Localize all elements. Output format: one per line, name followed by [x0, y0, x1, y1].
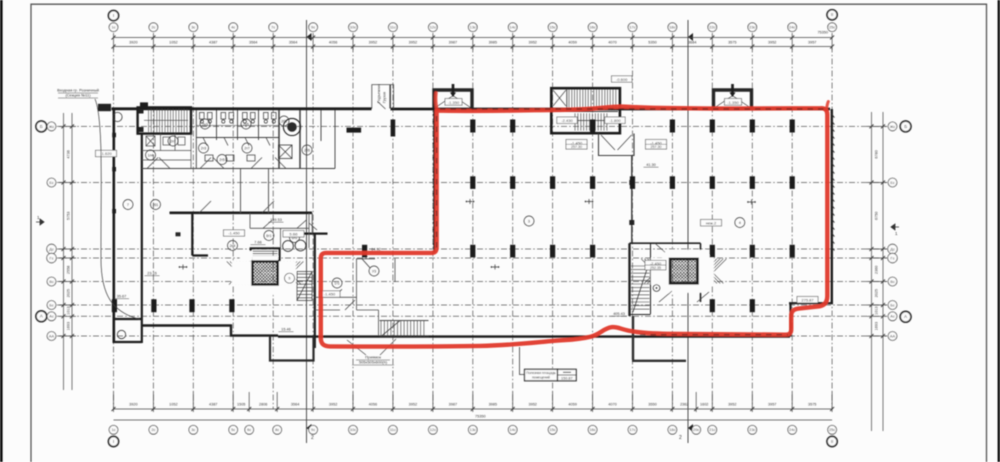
svg-text:1693: 1693: [875, 322, 879, 330]
svg-text:Подъемник: Подъемник: [377, 84, 381, 103]
bottom big circle II: [827, 436, 837, 446]
svg-text:23с: 23с: [749, 427, 755, 432]
svg-text:5350: 5350: [648, 41, 656, 45]
svg-text:10с: 10с: [350, 25, 356, 30]
svg-text:Жс: Жс: [49, 124, 55, 129]
entrance shaft B: [714, 90, 752, 108]
svg-text:3952: 3952: [369, 41, 377, 45]
svg-text:1602: 1602: [700, 403, 708, 407]
svg-text:3952: 3952: [329, 403, 337, 407]
pit below: [270, 337, 314, 361]
svg-text:3985: 3985: [489, 403, 497, 407]
svg-text:15с: 15с: [549, 427, 555, 432]
svg-text:4070: 4070: [608, 403, 616, 407]
svg-text:3: 3: [528, 219, 530, 223]
svg-text:-1.620: -1.620: [100, 151, 112, 156]
svg-text:4с: 4с: [231, 25, 235, 30]
svg-text:1с: 1с: [111, 25, 115, 30]
corridor doors: [147, 158, 286, 214]
svg-text:6750: 6750: [875, 212, 879, 220]
pump rooms: [250, 213, 309, 248]
elevator machine room: [251, 248, 280, 260]
svg-text:18с: 18с: [669, 25, 675, 30]
svg-text:Ас: Ас: [49, 314, 54, 319]
top dimension lines: [112, 33, 835, 50]
stair S1 (top-left): [138, 107, 191, 133]
mid rooms: [315, 259, 395, 337]
svg-text:159.53: 159.53: [270, 218, 282, 222]
svg-text:помещений: помещений: [532, 376, 550, 380]
svg-text:12с: 12с: [430, 427, 436, 432]
svg-text:Б: Б: [40, 124, 43, 129]
left dimension column: [59, 113, 76, 390]
svg-text:I: I: [113, 13, 114, 18]
svg-text:3957: 3957: [808, 41, 816, 45]
left axis circles: [47, 122, 56, 131]
svg-text:3684: 3684: [688, 41, 696, 45]
red highlight outline: [321, 107, 828, 347]
svg-text:14с: 14с: [510, 427, 516, 432]
svg-text:13с: 13с: [470, 427, 476, 432]
building outer walls: [112, 108, 834, 349]
svg-text:2б3: 2б3: [281, 119, 287, 123]
svg-text:2с: 2с: [151, 427, 155, 432]
hoist shaft: [372, 85, 394, 109]
svg-text:3564: 3564: [291, 403, 299, 407]
svg-text:2806: 2806: [259, 403, 267, 407]
elevator shaft hatched: [227, 261, 304, 284]
svg-text:4056: 4056: [329, 41, 337, 45]
legend box: [520, 347, 525, 375]
svg-text:4059: 4059: [568, 403, 576, 407]
svg-text:6с: 6с: [247, 427, 251, 432]
right stair block: [630, 243, 701, 316]
bottom big circle I: [108, 436, 118, 446]
svg-text:16с: 16с: [589, 427, 595, 432]
svg-text:Жс: Жс: [890, 124, 896, 129]
svg-text:11с: 11с: [390, 427, 396, 432]
right dimension column: [867, 112, 887, 431]
svg-text:2: 2: [679, 435, 682, 441]
svg-text:Б: Б: [904, 124, 907, 129]
column circle: [653, 285, 660, 292]
level label boxes: [566, 140, 587, 150]
svg-text:-1.450: -1.450: [228, 231, 240, 236]
svg-text:5753: 5753: [67, 212, 71, 220]
section line 2 (left): [306, 20, 308, 443]
wall dashes visible through red: [437, 109, 824, 335]
svg-text:-1.450: -1.450: [324, 292, 336, 297]
svg-text:23с: 23с: [749, 25, 755, 30]
svg-text:3564: 3564: [289, 41, 297, 45]
svg-text:1т1: 1т1: [334, 281, 339, 285]
svg-text:3987: 3987: [449, 403, 457, 407]
svg-text:(Секция №11): (Секция №11): [65, 93, 91, 98]
svg-text:3564: 3564: [249, 41, 257, 45]
svg-text:Вс: Вс: [49, 279, 54, 284]
svg-text:-1.800: -1.800: [609, 118, 621, 123]
top big circle II: [827, 10, 837, 20]
stair S4: [380, 321, 429, 337]
svg-text:1013: 1013: [875, 306, 879, 314]
manhole circle: [117, 330, 125, 338]
svg-text:Ас: Ас: [890, 314, 895, 319]
svg-text:2025: 2025: [875, 289, 879, 297]
svg-text:3920: 3920: [129, 403, 137, 407]
svg-text:3920: 3920: [129, 41, 137, 45]
svg-text:2362: 2362: [680, 403, 688, 407]
svg-text:Ес: Ес: [890, 180, 895, 185]
svg-text:3952: 3952: [528, 403, 536, 407]
wall stub below: [632, 316, 686, 361]
svg-text:75350: 75350: [475, 415, 486, 419]
svg-text:-1.350: -1.350: [448, 100, 460, 105]
tanks: [283, 241, 294, 252]
svg-text:12с: 12с: [430, 25, 436, 30]
svg-text:-1.350: -1.350: [727, 100, 739, 105]
svg-text:5с: 5с: [231, 427, 235, 432]
stair labels: [557, 117, 577, 123]
svg-text:Бс: Бс: [890, 302, 895, 307]
svg-text:Полезная площадь: Полезная площадь: [526, 371, 556, 375]
svg-text:252.35: 252.35: [650, 266, 661, 270]
svg-text:35.67: 35.67: [117, 295, 127, 299]
svg-text:3550: 3550: [648, 403, 656, 407]
horizontal axis grid lines: [57, 126, 887, 336]
right page edge bar: [998, 0, 1000, 462]
svg-text:22с: 22с: [709, 25, 715, 30]
top big circle I: [108, 11, 118, 21]
X-marked unit: [279, 145, 293, 159]
svg-text:2т5: 2т5: [219, 158, 224, 162]
svg-text:150.87: 150.87: [561, 376, 573, 380]
svg-text:4056: 4056: [369, 403, 377, 407]
elevator shaft right hatched: [670, 259, 698, 284]
service rooms under stair: [142, 134, 191, 169]
svg-text:4387: 4387: [209, 403, 217, 407]
svg-text:3987: 3987: [449, 41, 457, 45]
svg-text:4736: 4736: [67, 150, 71, 158]
svg-text:405.43: 405.43: [613, 312, 625, 316]
svg-text:2: 2: [311, 435, 314, 441]
svg-text:Гс: Гс: [890, 255, 894, 260]
small dark box: [176, 232, 181, 236]
svg-text:1013: 1013: [67, 306, 71, 314]
svg-text:3575: 3575: [808, 403, 816, 407]
svg-text:Бс: Бс: [49, 302, 54, 307]
WC fixtures: [200, 113, 277, 162]
svg-text:Грузов: Грузов: [383, 92, 387, 103]
svg-text:23.15: 23.15: [147, 272, 157, 276]
room number circles: [123, 200, 133, 210]
svg-text:2у5: 2у5: [243, 122, 249, 126]
svg-text:257.30: 257.30: [651, 145, 662, 149]
svg-text:3952: 3952: [409, 41, 417, 45]
WC block walls: [142, 110, 335, 169]
svg-text:Вс: Вс: [890, 279, 895, 284]
svg-text:2025: 2025: [67, 289, 71, 297]
svg-text:7: 7: [127, 203, 129, 207]
columns grid: [112, 120, 795, 313]
left page edge bar: [0, 0, 3, 462]
svg-text:24с: 24с: [789, 25, 795, 30]
svg-text:4059: 4059: [568, 41, 576, 45]
svg-text:14с: 14с: [510, 25, 516, 30]
svg-text:Ес: Ес: [49, 180, 54, 185]
svg-text:2558: 2558: [67, 266, 71, 274]
svg-text:1л4: 1л4: [148, 153, 154, 157]
plus marks: [179, 199, 756, 270]
svg-text:неж.2: неж.2: [706, 220, 717, 225]
svg-text:9с: 9с: [311, 427, 315, 432]
washer drum: [283, 118, 300, 135]
svg-text:1052: 1052: [169, 403, 177, 407]
svg-text:11с: 11с: [390, 25, 396, 30]
svg-text:Дс: Дс: [890, 246, 895, 251]
svg-text:261: 261: [153, 203, 159, 207]
doors right block: [655, 243, 709, 302]
svg-text:-0.600: -0.600: [616, 77, 628, 82]
door jambs on left wall: [112, 102, 148, 213]
svg-text:3с: 3с: [191, 25, 195, 30]
svg-text:505х505х600(h): 505х505х600(h): [359, 360, 388, 365]
svg-text:Дс: Дс: [49, 246, 54, 251]
grand stair block: [551, 88, 620, 133]
top axis circles: [109, 23, 118, 32]
svg-text:10с: 10с: [350, 427, 356, 432]
svg-text:У3: У3: [372, 269, 376, 273]
svg-text:2т3: 2т3: [201, 146, 206, 150]
svg-text:АА: АА: [49, 333, 55, 338]
svg-text:25с: 25с: [829, 427, 835, 432]
hatch ticks along walls: [433, 113, 835, 251]
svg-text:1052: 1052: [169, 41, 177, 45]
svg-text:9с: 9с: [311, 25, 315, 30]
svg-text:4: 4: [739, 221, 741, 225]
svg-text:257.30: 257.30: [571, 145, 582, 149]
svg-text:75350: 75350: [817, 31, 828, 35]
svg-text:3957: 3957: [768, 403, 776, 407]
vestibule: [599, 134, 635, 156]
svg-text:13с: 13с: [470, 25, 476, 30]
svg-text:21с: 21с: [709, 427, 715, 432]
svg-text:Гс: Гс: [49, 255, 53, 260]
svg-text:3952: 3952: [728, 403, 736, 407]
entrance shaft A: [434, 90, 472, 108]
svg-text:16с: 16с: [589, 25, 595, 30]
svg-text:II: II: [831, 439, 834, 444]
svg-text:2п7: 2п7: [170, 139, 176, 143]
svg-text:3952: 3952: [768, 41, 776, 45]
svg-text:20с: 20с: [693, 427, 699, 432]
svg-text:5: 5: [289, 277, 291, 281]
svg-text:275.87: 275.87: [801, 297, 814, 302]
red corner blobs: [436, 93, 829, 110]
svg-text:5.В6: 5.В6: [289, 232, 298, 237]
svg-text:25с: 25с: [829, 25, 835, 30]
svg-text:18с: 18с: [669, 427, 675, 432]
svg-text:3985: 3985: [489, 41, 497, 45]
bottom axis circles: [109, 425, 118, 434]
stair S3: [297, 272, 312, 301]
svg-text:6780: 6780: [875, 150, 879, 158]
svg-text:АА: АА: [890, 333, 896, 338]
svg-text:7с: 7с: [271, 25, 275, 30]
corner pier: [98, 104, 111, 111]
svg-text:3952: 3952: [528, 41, 536, 45]
svg-text:2б5: 2б5: [304, 148, 310, 152]
svg-text:2с: 2с: [151, 25, 155, 30]
svg-text:6т1: 6т1: [266, 234, 271, 238]
svg-text:2у3: 2у3: [202, 122, 208, 126]
svg-text:1505: 1505: [237, 403, 245, 407]
bottom dimension lines: [112, 392, 835, 420]
svg-text:3с: 3с: [191, 427, 195, 432]
svg-text:-2.430: -2.430: [561, 118, 573, 123]
spine wall: [631, 156, 633, 244]
svg-text:1693: 1693: [67, 322, 71, 330]
svg-text:3952: 3952: [409, 403, 417, 407]
svg-text:24с: 24с: [789, 427, 795, 432]
svg-text:4387: 4387: [209, 41, 217, 45]
svg-text:3575: 3575: [728, 41, 736, 45]
svg-text:8с: 8с: [275, 427, 279, 432]
svg-text:1с: 1с: [111, 427, 115, 432]
svg-text:15с: 15с: [549, 25, 555, 30]
svg-text:17с: 17с: [629, 25, 635, 30]
svg-text:4070: 4070: [608, 41, 616, 45]
svg-text:II: II: [831, 12, 834, 17]
svg-text:41.30: 41.30: [646, 163, 656, 167]
vertical axis grid lines: [114, 47, 833, 410]
svg-text:2360: 2360: [875, 266, 879, 274]
right axis circles: [888, 122, 897, 131]
section line 1 (right): [687, 20, 689, 443]
svg-text:I: I: [113, 439, 114, 444]
section 1-1 end arrows: [36, 219, 44, 225]
entry circle column: [113, 112, 122, 121]
svg-text:17с: 17с: [629, 427, 635, 432]
svg-text:7.66: 7.66: [254, 241, 261, 245]
svg-text:2н4: 2н4: [230, 244, 236, 248]
svg-text:2т7: 2т7: [244, 146, 249, 150]
svg-text:15.46: 15.46: [281, 328, 291, 332]
